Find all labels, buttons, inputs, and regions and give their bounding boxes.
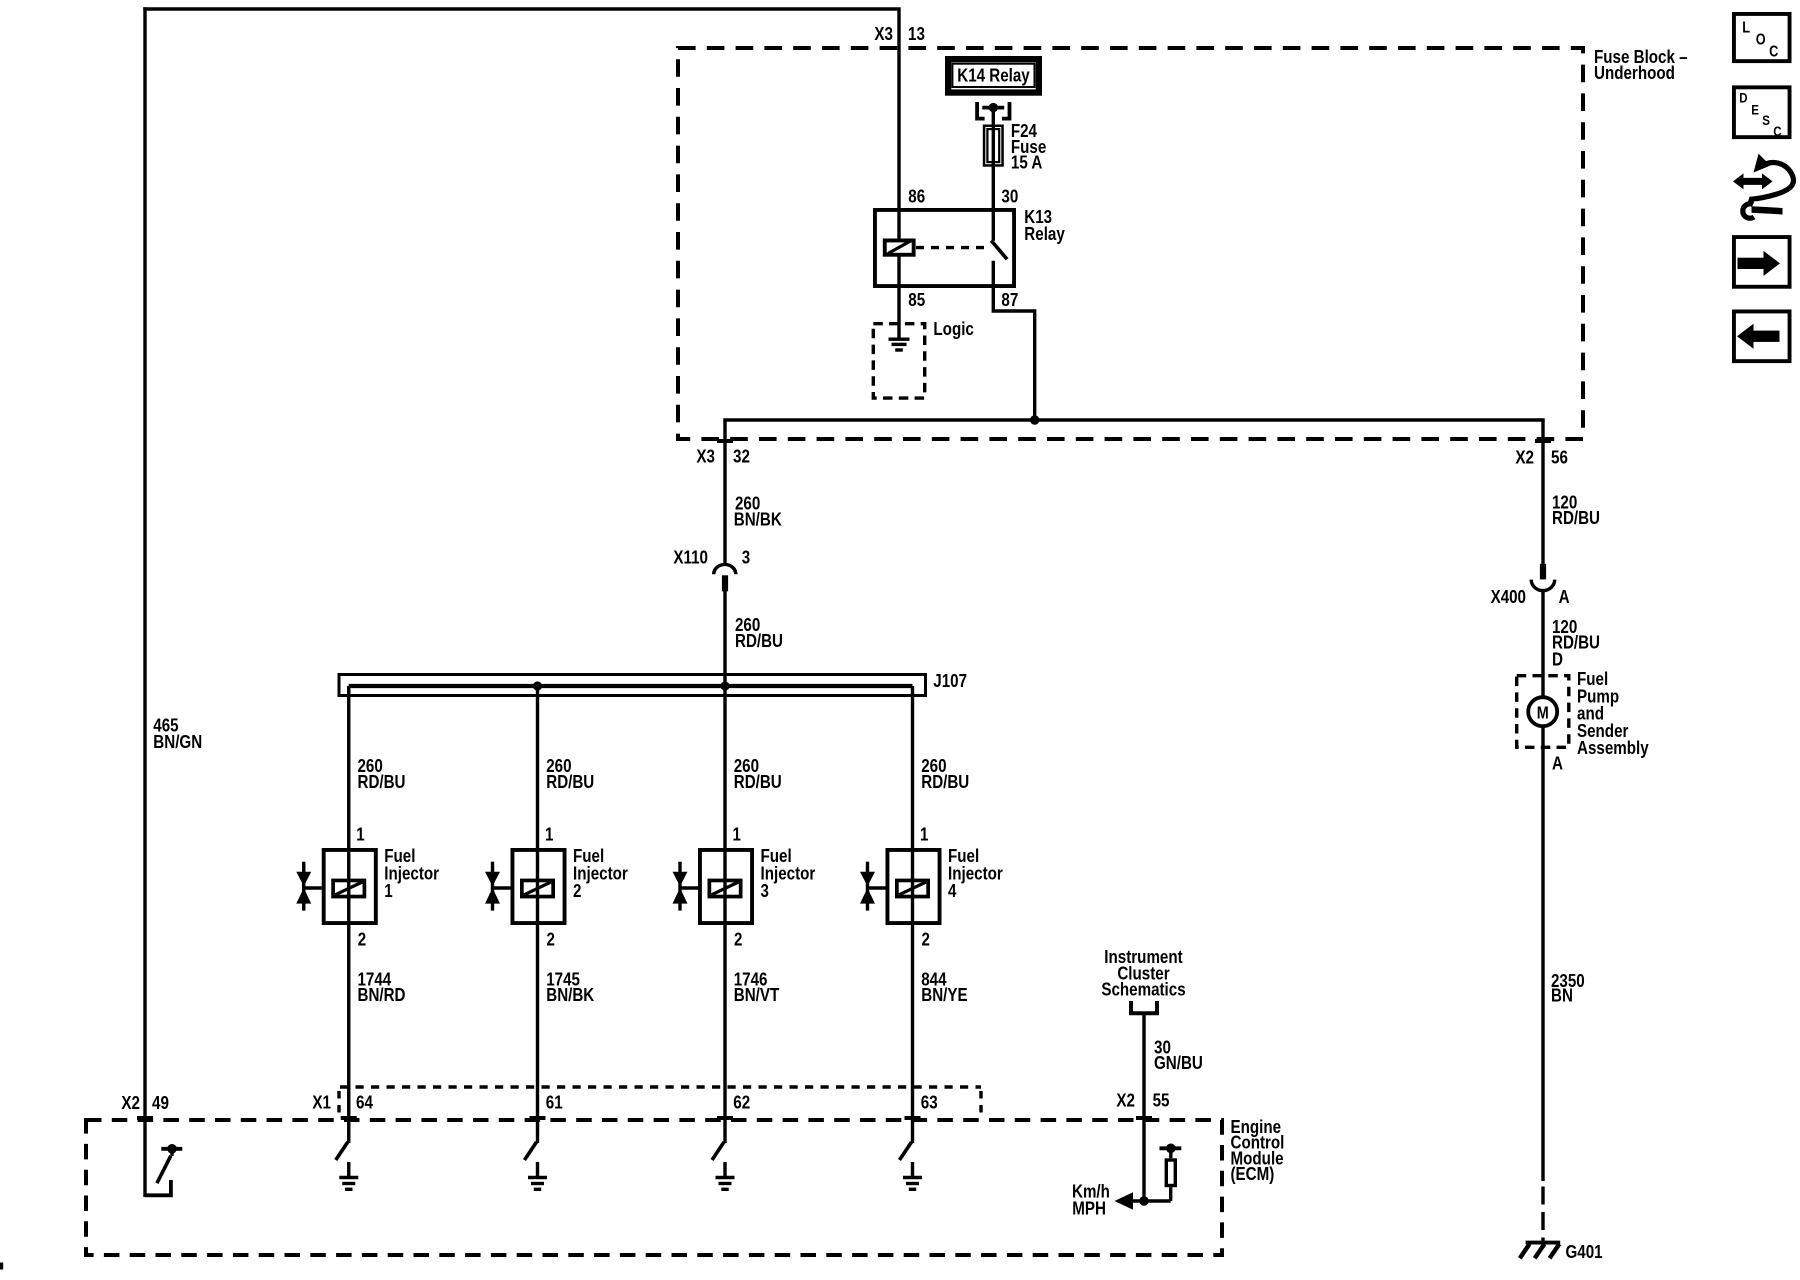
- svg-text:X2: X2: [1515, 447, 1534, 468]
- fuel injector 2 valve symbol: [491, 862, 494, 911]
- svg-text:MPH: MPH: [1072, 1198, 1106, 1219]
- svg-text:56: 56: [1551, 447, 1568, 468]
- fuel injector 1 valve symbol: [302, 862, 305, 911]
- wire 30 GN/BU: [1142, 1013, 1145, 1201]
- svg-text:1: 1: [545, 824, 553, 845]
- svg-text:13: 13: [908, 23, 925, 44]
- svg-text:A: A: [1559, 586, 1570, 607]
- wire top feed to fuse block X3-13: [143, 9, 899, 240]
- svg-text:30: 30: [1001, 185, 1018, 206]
- svg-text:E: E: [1751, 101, 1759, 117]
- svg-text:BN/RD: BN/RD: [358, 984, 406, 1005]
- ECM pin tick: [530, 1116, 546, 1120]
- svg-text:RD/BU: RD/BU: [734, 771, 782, 792]
- svg-text:RD/BU: RD/BU: [358, 771, 406, 792]
- ECM internal ground: [536, 1162, 539, 1178]
- ECM injector driver switch: [525, 1142, 537, 1160]
- svg-text:Logic: Logic: [933, 318, 974, 339]
- svg-text:BN/YE: BN/YE: [921, 984, 967, 1005]
- ECM pin tick: [341, 1116, 357, 1120]
- svg-text:2: 2: [547, 929, 555, 950]
- svg-text:2: 2: [734, 929, 742, 950]
- svg-text:X2: X2: [121, 1092, 140, 1113]
- relay K13 box: [875, 210, 1014, 286]
- svg-text:S: S: [1762, 112, 1770, 128]
- ECM pin tick: [1136, 1116, 1152, 1120]
- fuel injector 2 box: [512, 850, 564, 923]
- svg-text:O: O: [1756, 32, 1766, 49]
- svg-text:J107: J107: [933, 670, 967, 691]
- svg-text:BN/BK: BN/BK: [546, 984, 595, 1005]
- ECM pin tick: [137, 1116, 153, 1120]
- ECM internal ground: [723, 1162, 726, 1178]
- double-arrow wrench icon: [1733, 173, 1773, 189]
- engine control module dashed box: [86, 1120, 1222, 1255]
- dashed wire to G401: [1541, 1187, 1544, 1242]
- relay K13 switch arm: [991, 241, 1007, 260]
- svg-text:Underhood: Underhood: [1594, 62, 1675, 83]
- relay K13 coil-contact dashed link: [916, 246, 989, 249]
- svg-text:55: 55: [1153, 1090, 1170, 1111]
- LOC icon box: [1734, 14, 1790, 61]
- fuel injector 4 solenoid coil: [897, 880, 928, 896]
- svg-text:2: 2: [573, 880, 581, 901]
- svg-text:G401: G401: [1566, 1241, 1603, 1262]
- page edge mark: [0, 1263, 3, 1270]
- next-page arrow icon: [1734, 237, 1790, 287]
- splice pack J107: [339, 675, 926, 696]
- svg-text:(ECM): (ECM): [1231, 1163, 1275, 1184]
- tick X3-32 crossing: [717, 439, 733, 443]
- svg-text:X3: X3: [874, 23, 893, 44]
- svg-text:87: 87: [1001, 289, 1018, 310]
- ECM internal ground: [347, 1162, 350, 1178]
- ECM pin tick: [905, 1116, 921, 1120]
- svg-text:BN/GN: BN/GN: [153, 731, 202, 752]
- svg-text:RD/BU: RD/BU: [921, 771, 969, 792]
- svg-text:49: 49: [152, 1092, 169, 1113]
- svg-text:RD/BU: RD/BU: [735, 630, 783, 651]
- svg-text:2: 2: [922, 929, 930, 950]
- svg-text:X1: X1: [312, 1092, 331, 1113]
- fuse block - underhood dashed box: [678, 48, 1583, 439]
- svg-text:3: 3: [742, 546, 750, 567]
- svg-text:3: 3: [761, 880, 769, 901]
- ECM connector X1 dotted box: [340, 1085, 981, 1088]
- fuel injector 3 solenoid coil: [709, 880, 740, 896]
- ECM injector driver switch: [712, 1142, 724, 1160]
- wire 120 RD/BU: [1541, 420, 1544, 564]
- ECM internal ground: [911, 1162, 914, 1178]
- svg-text:15 A: 15 A: [1011, 152, 1043, 173]
- tick X2-56 crossing: [1535, 439, 1551, 443]
- wire 260 RD/BU branch to fuel injector 3: [723, 686, 726, 1143]
- svg-text:BN/BK: BN/BK: [734, 508, 783, 529]
- wire 465 BN/GN (left vertical from splice to ECM pin 49): [143, 7, 146, 1197]
- svg-text:1: 1: [384, 880, 392, 901]
- svg-text:63: 63: [921, 1092, 938, 1113]
- fuel injector 4 valve symbol: [866, 862, 869, 911]
- fuel injector 3 valve symbol: [678, 862, 681, 911]
- svg-text:Schematics: Schematics: [1101, 979, 1185, 1000]
- previous-page arrow icon: [1734, 311, 1790, 361]
- ECM injector driver switch: [900, 1142, 912, 1160]
- svg-text:2: 2: [358, 929, 366, 950]
- instrument cluster off-page bracket: [1131, 1001, 1157, 1013]
- junction dot J107 branch 2: [533, 681, 542, 690]
- inline connector X110 pin 3: [714, 564, 736, 574]
- svg-text:C: C: [1769, 44, 1778, 61]
- fuel pump and sender assembly dashed box: [1517, 676, 1569, 748]
- svg-text:86: 86: [908, 185, 925, 206]
- fuel injector 2 solenoid coil: [522, 880, 553, 896]
- svg-text:1: 1: [356, 824, 364, 845]
- wire 2350 BN to ground: [1541, 726, 1544, 1181]
- logic ground symbol: [889, 338, 910, 341]
- fuse F24 15 A: [984, 126, 1003, 166]
- svg-text:85: 85: [908, 289, 925, 310]
- svg-text:RD/BU: RD/BU: [546, 771, 594, 792]
- svg-text:61: 61: [546, 1092, 563, 1113]
- svg-text:1: 1: [920, 824, 928, 845]
- svg-text:X2: X2: [1116, 1090, 1135, 1111]
- svg-text:X400: X400: [1491, 586, 1526, 607]
- ECM internal resistor: [1169, 1187, 1172, 1201]
- svg-text:62: 62: [733, 1092, 750, 1113]
- wire fuse to relay K13 pin 30: [992, 167, 995, 241]
- wire from terminal to fuse F24: [992, 105, 995, 126]
- svg-text:D: D: [1739, 90, 1747, 106]
- svg-text:D: D: [1552, 649, 1563, 670]
- fuel injector 1 solenoid coil: [333, 880, 364, 896]
- ECM internal supply T-bar: [1160, 1146, 1182, 1150]
- svg-text:C: C: [1773, 123, 1781, 139]
- junction dot relay 87 / bus: [1030, 415, 1039, 424]
- wire 120 RD/BU pin D: [1541, 590, 1544, 697]
- svg-text:Relay: Relay: [1024, 223, 1065, 244]
- svg-text:A: A: [1552, 753, 1563, 774]
- svg-text:32: 32: [733, 446, 750, 467]
- svg-text:BN: BN: [1551, 984, 1573, 1005]
- ECM speed signal arrow Km/h MPH: [1131, 1199, 1171, 1202]
- ground G401 symbol: [1526, 1241, 1561, 1245]
- svg-text:X110: X110: [673, 546, 708, 567]
- svg-text:X3: X3: [696, 446, 715, 467]
- wire 260 RD/BU branch to fuel injector 2: [536, 686, 539, 1143]
- fuse holder terminal brackets: [977, 102, 985, 119]
- fuel injector 1 box: [324, 850, 376, 923]
- fuse holder T-bar terminal with junction dot: [982, 106, 1004, 110]
- svg-text:K14 Relay: K14 Relay: [957, 65, 1030, 86]
- svg-text:4: 4: [948, 880, 957, 901]
- svg-text:Assembly: Assembly: [1577, 737, 1649, 758]
- relay K13 coil: [885, 240, 914, 254]
- fuel injector 4 box: [887, 850, 939, 923]
- wire 260 RD/BU branch to fuel injector 4: [911, 686, 914, 1143]
- svg-text:L: L: [1742, 20, 1750, 37]
- svg-text:M: M: [1537, 702, 1549, 722]
- svg-text:RD/BU: RD/BU: [1552, 507, 1600, 528]
- wire 260 RD/BU branch to fuel injector 1: [347, 686, 350, 1143]
- svg-text:64: 64: [356, 1092, 373, 1113]
- fuel injector 3 box: [700, 850, 752, 923]
- svg-text:1: 1: [733, 824, 741, 845]
- wire 260 RD/BU to splice J107: [723, 591, 726, 688]
- ECM pin 49 internal switch: [145, 1180, 171, 1195]
- K14 Relay boxed label: [948, 59, 1039, 92]
- wire relay pin 87 to splice bus: [993, 261, 1034, 422]
- horizontal bus wire in fuse block: [723, 418, 1544, 421]
- ECM pin tick: [717, 1116, 733, 1120]
- DESC icon box: [1734, 87, 1790, 137]
- svg-text:GN/BU: GN/BU: [1154, 1052, 1203, 1073]
- svg-text:BN/VT: BN/VT: [734, 984, 780, 1005]
- logic ground dashed box: [873, 324, 924, 398]
- wire relay pin 85 to logic ground: [897, 257, 900, 340]
- junction dot J107 branch 3: [720, 681, 729, 690]
- ECM injector driver switch: [336, 1142, 348, 1160]
- wire 260 BN/BK: [723, 420, 726, 564]
- fuel pump motor M: [1528, 697, 1557, 726]
- inline connector X400 pin A: [1540, 564, 1546, 580]
